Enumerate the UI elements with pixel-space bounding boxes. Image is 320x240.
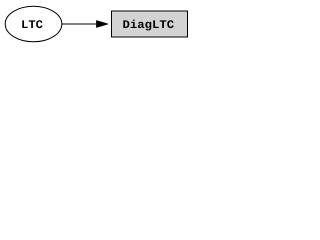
svg-text:LTC: LTC (21, 19, 43, 32)
node DiagLTC (box) (112, 11, 188, 37)
node LTC (ellipse) (5, 6, 62, 42)
svg-text:DiagLTC: DiagLTC (123, 19, 175, 32)
arrowhead of edge (96, 20, 108, 27)
wire edge from LTC to DiagLTC (62, 23, 98, 25)
